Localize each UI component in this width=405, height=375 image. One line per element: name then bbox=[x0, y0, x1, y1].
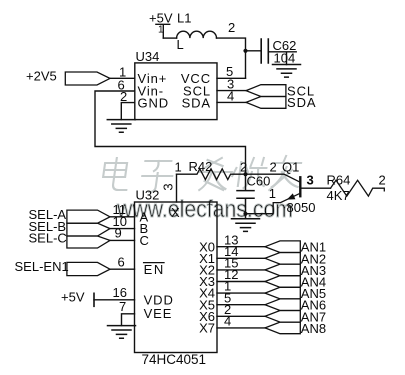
connector SEL-EN1 bbox=[15, 259, 111, 276]
svg-text:EN: EN bbox=[144, 262, 165, 277]
svg-text:2: 2 bbox=[120, 89, 127, 104]
connector SCL bbox=[246, 83, 315, 98]
svg-text:3: 3 bbox=[161, 183, 176, 190]
capacitor C60 bbox=[237, 174, 270, 219]
connector AN1 bbox=[265, 240, 326, 255]
svg-text:2: 2 bbox=[228, 20, 235, 35]
inductor L1 bbox=[177, 11, 217, 53]
resistor R64 bbox=[327, 172, 386, 203]
svg-text:8050: 8050 bbox=[287, 200, 316, 215]
svg-text:AN8: AN8 bbox=[301, 321, 326, 336]
svg-text:1: 1 bbox=[158, 25, 164, 36]
svg-text:3: 3 bbox=[307, 173, 314, 188]
connector AN8 bbox=[265, 321, 326, 336]
svg-text:74HC4051: 74HC4051 bbox=[142, 352, 207, 367]
svg-text:GND: GND bbox=[138, 96, 170, 111]
watermark chinese char 2 bbox=[140, 161, 174, 192]
connector AN6 bbox=[265, 298, 326, 313]
svg-text:1: 1 bbox=[269, 186, 276, 201]
ground (U34 GND) bbox=[107, 120, 135, 133]
wire pin9 bbox=[110, 239, 135, 241]
connector SEL-A bbox=[29, 207, 111, 223]
wire X4 + pin label 1 bbox=[217, 292, 265, 294]
svg-text:U32: U32 bbox=[136, 188, 160, 203]
wire X2 + pin label 15 bbox=[217, 269, 265, 271]
junction dot (node 2 R42/C60/Q1) bbox=[243, 172, 247, 176]
wire pin16 VDD bbox=[94, 299, 135, 301]
wire (C62 to ground) bbox=[268, 52, 296, 65]
wire X3 + pin label 12 bbox=[217, 281, 265, 283]
transistor Q1 bbox=[246, 159, 316, 215]
wire pin1 U34 bbox=[110, 77, 135, 79]
wire pin10 bbox=[110, 228, 135, 230]
svg-text:C: C bbox=[140, 233, 149, 248]
connector AN7 bbox=[265, 309, 326, 324]
svg-text:L: L bbox=[177, 37, 184, 52]
svg-text:R64: R64 bbox=[327, 172, 351, 187]
wire collector (node to Q1) bbox=[246, 174, 301, 182]
wire X1 + pin label 14 bbox=[217, 257, 265, 259]
watermark chinese char 4 bbox=[231, 158, 268, 188]
svg-text:7: 7 bbox=[119, 299, 126, 314]
svg-text:+2V5: +2V5 bbox=[26, 69, 57, 84]
wire X0 + pin label 13 bbox=[217, 246, 265, 248]
svg-text:SEL-EN1: SEL-EN1 bbox=[15, 259, 69, 274]
connector SEL-B bbox=[29, 219, 111, 236]
svg-text:VEE: VEE bbox=[144, 306, 173, 321]
svg-text:X7: X7 bbox=[199, 321, 215, 336]
svg-text:1: 1 bbox=[175, 160, 182, 175]
connector SEL-C bbox=[29, 231, 111, 248]
connector AN2 bbox=[265, 251, 326, 266]
power +5V (top) bbox=[149, 11, 173, 39]
svg-text:Q1: Q1 bbox=[282, 159, 299, 174]
svg-text:+5V: +5V bbox=[149, 11, 173, 26]
wire pin4 SDA bbox=[217, 101, 246, 103]
svg-text:2: 2 bbox=[379, 173, 386, 188]
op-amp U34 box bbox=[135, 49, 217, 120]
ground (C60) bbox=[232, 219, 260, 232]
wire (node to C62) bbox=[246, 50, 262, 52]
connector SDA bbox=[246, 95, 316, 110]
svg-text:SEL-C: SEL-C bbox=[29, 231, 67, 246]
svg-text:X: X bbox=[171, 205, 180, 220]
svg-text:6: 6 bbox=[118, 254, 125, 269]
wire (L1 to node 2) bbox=[217, 38, 246, 78]
wire pin5 VCC bbox=[217, 77, 246, 79]
connector AN5 bbox=[265, 286, 326, 301]
wire pin3 X (U32 top) bbox=[176, 174, 178, 202]
svg-text:+5V: +5V bbox=[61, 290, 85, 305]
resistor R42 bbox=[175, 159, 248, 180]
svg-text:2: 2 bbox=[270, 159, 277, 174]
power +5V (VDD) bbox=[61, 290, 94, 307]
svg-text:C60: C60 bbox=[247, 174, 271, 189]
svg-text:16: 16 bbox=[113, 285, 127, 300]
connector AN4 bbox=[265, 275, 326, 290]
svg-text:SDA: SDA bbox=[182, 95, 211, 110]
junction dot (VCC node) bbox=[243, 49, 247, 53]
wire pin3 SCL bbox=[217, 90, 246, 92]
watermark chinese char 5 bbox=[269, 156, 302, 190]
wire pin11 bbox=[110, 216, 135, 218]
wire X5 + pin label 5 bbox=[217, 304, 265, 306]
ground (U32 VEE) bbox=[108, 326, 136, 339]
ground (C62) bbox=[273, 65, 301, 78]
svg-text:4: 4 bbox=[224, 314, 231, 329]
svg-text:U34: U34 bbox=[136, 49, 160, 64]
capacitor C62 bbox=[261, 38, 296, 66]
junction dot (emitter/C60 ground) bbox=[243, 212, 247, 216]
connector AN3 bbox=[265, 263, 326, 278]
mux U32 box bbox=[135, 188, 218, 368]
wire pin6 EN bbox=[110, 268, 135, 270]
svg-text:4: 4 bbox=[227, 89, 234, 104]
svg-text:9: 9 bbox=[115, 226, 122, 241]
wire pin7 VEE bbox=[122, 314, 135, 326]
svg-text:L1: L1 bbox=[177, 11, 191, 26]
wire base (Q1 to R64) bbox=[301, 187, 331, 189]
watermark chinese char 3 bbox=[197, 158, 233, 190]
watermark chinese char 1 bbox=[101, 158, 130, 190]
connector +2V5 bbox=[26, 69, 110, 86]
wire pin2 GND bbox=[121, 103, 135, 120]
wire pin6 Vin- feedback bbox=[95, 91, 246, 174]
wire (+5V to L1) bbox=[163, 37, 176, 39]
wire X6 + pin label 2 bbox=[217, 315, 265, 317]
svg-text:SDA: SDA bbox=[287, 95, 316, 110]
svg-text:104: 104 bbox=[274, 51, 296, 66]
wire X7 + pin label 4 bbox=[217, 327, 265, 329]
